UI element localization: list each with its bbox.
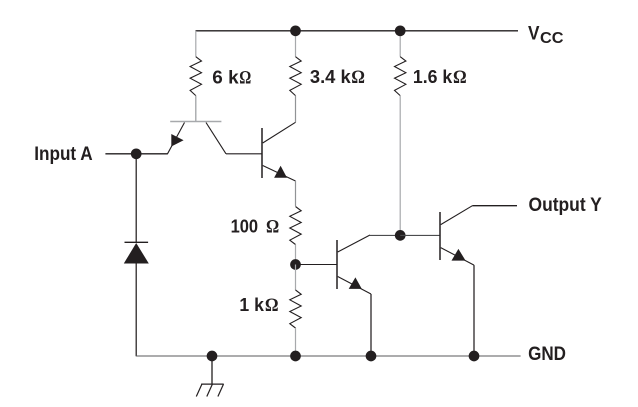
transistor Q4 base bar [439,212,441,260]
label 1.6 kOhm [413,67,467,88]
wire: Q2 emitter to 100 ohm (grey) [295,181,297,206]
transistor Q3 base bar [336,240,338,289]
label 6 kOhm [212,67,251,88]
svg-text:100: 100 [231,217,259,237]
svg-text:Input A: Input A [34,144,93,165]
transistor Q1 collector diagonal [206,123,226,154]
junction: top rail / 1.6k [395,25,406,36]
junction: node C (100/1k/Q3 base) [290,259,301,270]
resistor R4 100 Ohm [290,207,301,245]
wire: Q1 collector to Q2 base [226,153,262,155]
wire: GND bottom rail [136,355,521,357]
svg-text:Output Y: Output Y [529,195,603,216]
junction: input A node [131,148,142,159]
transistor Q1 emitter diagonal [168,123,185,154]
junction: node B (1.6k / Q3 coll / Q4 base) [395,230,406,241]
junction: top rail / 3.4k [290,25,301,36]
wire: node C to Q3 base [296,264,338,266]
wire: Q3 collector to node B [370,234,400,236]
transistor Q4 emitter arrow [452,249,466,261]
svg-text:Ω: Ω [239,67,251,88]
transistor Q3 emitter diagonal [338,277,371,295]
wire: output Y [472,205,517,207]
svg-text:Ω: Ω [453,67,467,88]
transistor Q3 collector diagonal [338,235,370,252]
ground symbol top bar [201,383,224,385]
wire: input vertical down left side [135,154,137,243]
ground symbol stem [211,356,213,384]
transistor Q1 base bar (grey) [170,121,221,123]
transistor Q4 collector diagonal [441,206,473,225]
junction: GND / Q3 emitter [366,351,377,362]
wire: Vcc top rail [196,30,519,32]
resistor R1 6 kOhm [190,57,201,96]
svg-text:Ω: Ω [351,67,365,88]
ground symbol hatch 2 [207,384,213,396]
wire: diode to bottom rail corner [135,264,137,357]
diode D1 cathode bar [125,241,149,243]
svg-text:1.6 k: 1.6 k [413,67,453,87]
svg-text:Ω: Ω [265,295,279,316]
junction: GND / 1k [290,351,301,362]
label 1 kOhm [239,295,278,316]
wire: node C to 1k (grey) [295,265,297,291]
wire: 1k to GND rail (grey) [295,328,297,356]
transistor Q2 base bar [261,128,263,178]
ground symbol hatch 3 [196,384,202,396]
transistor Q2 emitter diagonal [263,166,296,182]
svg-text:GND: GND [528,344,566,365]
wire: node B to Q4 base [400,234,440,236]
transistor Q2 emitter arrow [274,166,287,178]
wire: 1.6k long bottom lead down to node B (grey) [399,96,401,236]
label VCC [528,24,564,48]
label 100 Ohm [231,217,280,238]
transistor Q3 emitter arrow [349,277,362,289]
wire: 6k bottom lead (grey) [195,96,197,122]
wire: 3.4k top lead (grey) [295,31,297,57]
resistor R3 1.6 kOhm [395,57,406,96]
wire: 1.6k top lead (grey) [399,31,401,57]
transistor Q4 emitter diagonal [441,248,474,266]
wire: 100 ohm to node C (grey) [295,245,297,265]
transistor Q1 base lead (grey) [195,96,197,122]
junction: GND / ground symbol [207,351,218,362]
svg-text:V: V [528,24,540,45]
svg-text:3.4 k: 3.4 k [310,67,352,87]
wire: 3.4k bottom lead to Q2 collector corner (grey) [295,96,297,123]
wire: input A horizontal [105,153,167,155]
wire: Q3 emitter to GND rail [370,294,372,356]
resistor R5 1 kOhm [290,290,301,328]
diode D1 triangle [124,243,149,264]
ground symbol hatch 1 [218,384,224,396]
wire: Q4 emitter to GND rail [473,265,475,356]
label 3.4 kOhm [310,67,365,88]
wire: 6k top lead (grey) [195,31,197,57]
transistor Q1 emitter arrow [171,134,183,147]
svg-text:6 k: 6 k [212,67,239,87]
transistor Q2 collector diagonal [263,122,296,143]
resistor R2 3.4 kOhm [290,57,301,96]
svg-text:CC: CC [540,30,564,47]
svg-text:Ω: Ω [266,217,279,238]
junction: GND / Q4 emitter [469,351,480,362]
svg-text:1 k: 1 k [239,295,264,315]
